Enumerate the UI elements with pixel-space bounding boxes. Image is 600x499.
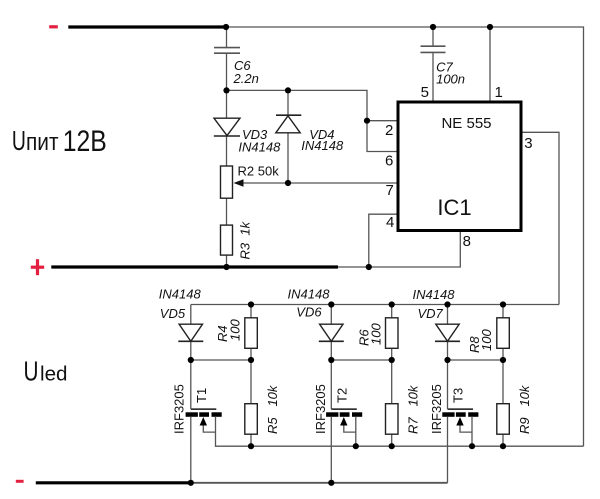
svg-text:IN4148: IN4148 — [413, 287, 456, 302]
svg-text:VD6: VD6 — [296, 305, 322, 320]
svg-text:5: 5 — [421, 84, 429, 101]
svg-text:100: 100 — [479, 329, 494, 351]
svg-text:R3 1k: R3 1k — [238, 220, 253, 259]
svg-text:R9 10k: R9 10k — [517, 384, 532, 434]
svg-text:IN4148: IN4148 — [301, 138, 344, 153]
svg-text:U: U — [24, 355, 39, 386]
svg-text:R5 10k: R5 10k — [265, 384, 280, 434]
svg-text:NE 555: NE 555 — [441, 115, 491, 132]
svg-text:1: 1 — [495, 84, 503, 101]
svg-text:VD5: VD5 — [160, 306, 186, 321]
svg-text:IRF3205: IRF3205 — [429, 384, 444, 434]
svg-text:12В: 12В — [63, 125, 107, 158]
svg-text:VD7: VD7 — [418, 306, 444, 321]
svg-text:R7 10k: R7 10k — [406, 384, 421, 434]
svg-text:2: 2 — [385, 122, 393, 139]
svg-text:6: 6 — [385, 153, 393, 170]
svg-text:2.2n: 2.2n — [233, 71, 259, 86]
svg-text:IN4148: IN4148 — [238, 140, 281, 155]
svg-text:8: 8 — [463, 233, 471, 250]
svg-text:U: U — [12, 125, 26, 156]
svg-text:IN4148: IN4148 — [288, 287, 331, 302]
svg-text:7: 7 — [386, 182, 394, 199]
svg-text:IN4148: IN4148 — [159, 287, 202, 302]
svg-text:3: 3 — [524, 135, 532, 152]
svg-text:IRF3205: IRF3205 — [172, 384, 187, 434]
svg-text:T1: T1 — [194, 388, 209, 403]
svg-text:IRF3205: IRF3205 — [313, 384, 328, 434]
svg-text:4: 4 — [386, 214, 394, 231]
svg-text:R2 50k: R2 50k — [238, 164, 280, 179]
svg-text:100: 100 — [368, 323, 383, 345]
svg-text:T2: T2 — [334, 388, 349, 403]
svg-text:led: led — [40, 363, 68, 385]
svg-text:IC1: IC1 — [437, 195, 471, 220]
svg-text:пит: пит — [26, 129, 59, 156]
svg-text:T3: T3 — [451, 388, 466, 403]
svg-text:100: 100 — [228, 319, 243, 341]
svg-text:100n: 100n — [436, 71, 465, 86]
